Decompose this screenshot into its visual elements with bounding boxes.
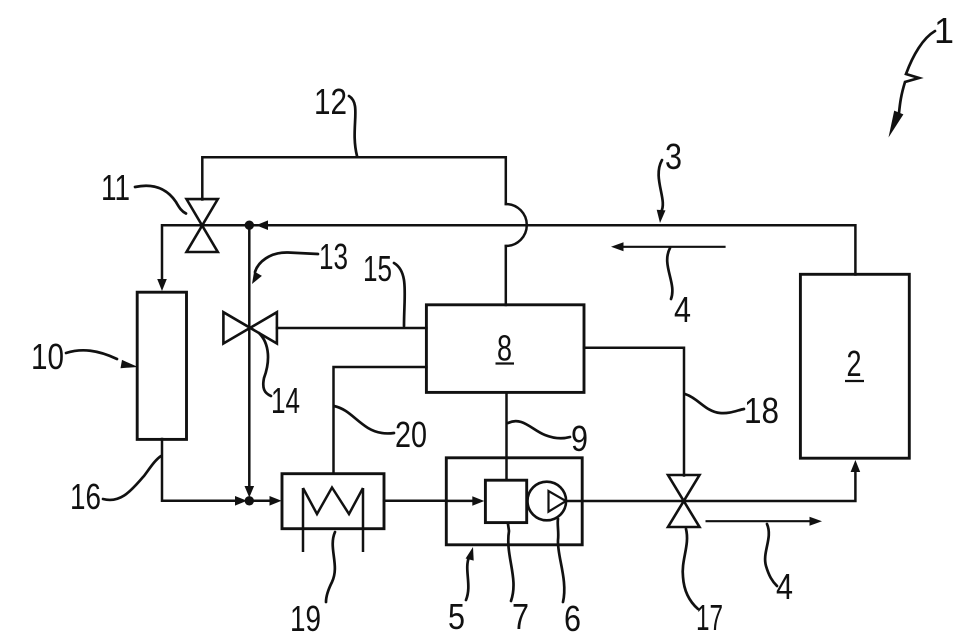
svg-text:14: 14 (271, 380, 300, 421)
svg-text:16: 16 (70, 476, 101, 517)
svg-text:6: 6 (564, 598, 581, 639)
svg-text:18: 18 (744, 390, 779, 431)
svg-text:10: 10 (31, 336, 64, 377)
svg-text:4: 4 (674, 289, 691, 330)
svg-text:13: 13 (319, 236, 348, 277)
svg-text:1: 1 (934, 10, 954, 51)
svg-text:5: 5 (448, 596, 465, 637)
svg-text:19: 19 (290, 598, 321, 639)
svg-text:2: 2 (847, 343, 862, 384)
svg-text:9: 9 (571, 418, 588, 459)
svg-text:4: 4 (776, 566, 793, 607)
svg-text:20: 20 (395, 414, 427, 455)
svg-text:11: 11 (101, 167, 130, 208)
svg-text:17: 17 (696, 597, 723, 638)
svg-text:15: 15 (363, 248, 392, 289)
svg-text:7: 7 (512, 596, 529, 637)
svg-text:3: 3 (665, 136, 682, 177)
svg-text:12: 12 (314, 81, 347, 122)
